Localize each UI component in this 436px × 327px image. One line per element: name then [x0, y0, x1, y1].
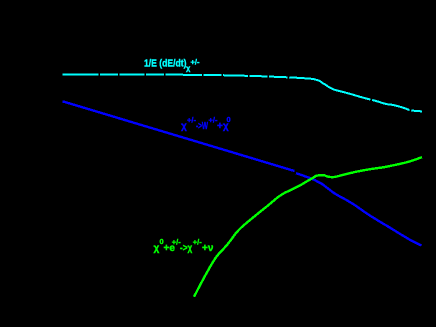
- blue curve chargino decay (pre-threshold segment): [63, 101, 295, 171]
- cyan label: 1/E (dE/dt)_chi^+-: [144, 58, 200, 73]
- svg-text:+/-: +/-: [191, 58, 200, 67]
- svg-text:0: 0: [227, 115, 231, 124]
- svg-text:+/-: +/-: [193, 238, 202, 247]
- svg-text:+ν: +ν: [202, 243, 214, 254]
- cyan dashed curve 1/E dE/dt: [62, 74, 422, 111]
- green label: chi^0 + e^+/- -> chi^+/- + nu: [154, 237, 214, 254]
- svg-text:->W: ->W: [196, 121, 208, 132]
- blue label: chi^+/- -> W^+/- + chi^0: [181, 115, 231, 132]
- blue curve chargino decay (post-threshold segment): [296, 173, 422, 245]
- svg-text:1/E (dE/dt): 1/E (dE/dt): [144, 58, 187, 70]
- svg-text:->χ: ->χ: [180, 243, 192, 254]
- green curve neutralino conversion: [194, 157, 422, 297]
